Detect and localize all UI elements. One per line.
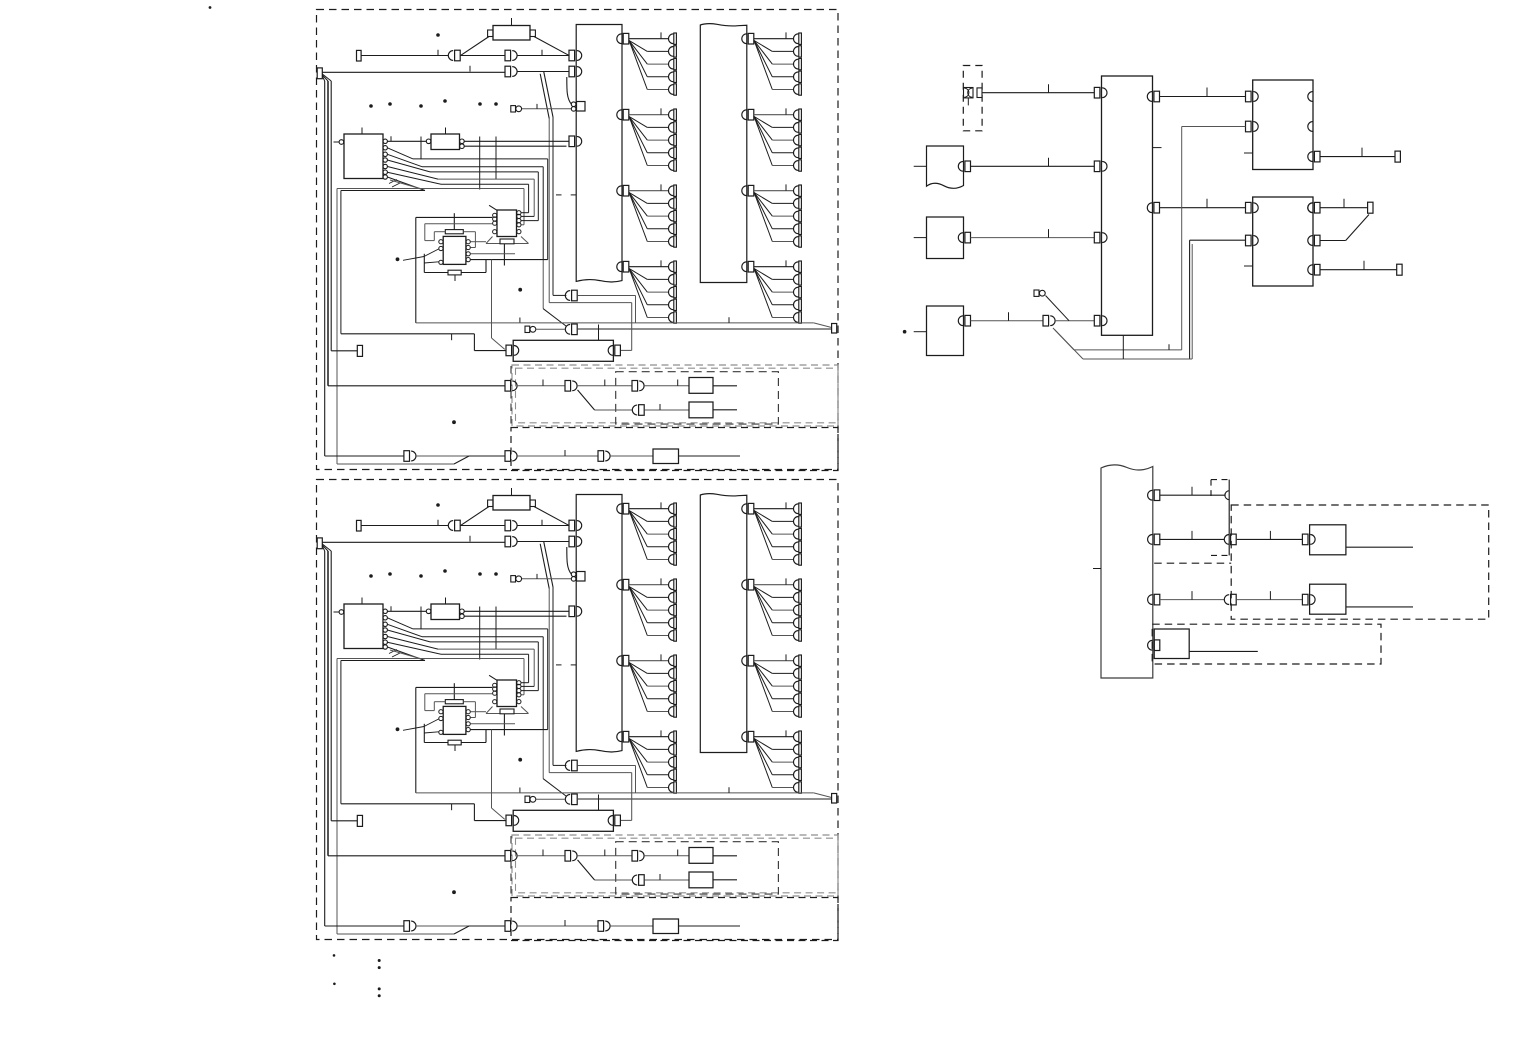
- wire RB1 out: [1320, 148, 1395, 157]
- stub on K1 right: [1153, 147, 1162, 149]
- connector pair C30: [1224, 535, 1229, 545]
- wire K2 row3: [1160, 591, 1224, 600]
- relay RB1: [1244, 80, 1313, 170]
- wire F2 out: [1346, 606, 1413, 608]
- wire M3 to pair: [971, 312, 1044, 321]
- wire RB2 out2 diag: [1320, 215, 1369, 241]
- pin RB1 out: [1308, 152, 1313, 162]
- connector pair C20: [1043, 315, 1049, 326]
- load F3: [1154, 629, 1189, 659]
- wire M1 stub: [914, 165, 927, 167]
- pin K1 right row2: [1147, 203, 1152, 213]
- pin on M3: [958, 316, 963, 326]
- connector half into dashed box: [1225, 491, 1230, 500]
- page mark: [209, 6, 212, 9]
- wire RB2 lower loop: [1055, 240, 1246, 359]
- wire C30 to F1: [1237, 531, 1303, 540]
- wire K1 bottom stub: [1122, 335, 1124, 359]
- wire C31 to F2: [1237, 591, 1303, 600]
- wire M2 to K1: [971, 229, 1095, 238]
- pin K2 row3: [1148, 595, 1153, 605]
- dashed link: [1154, 562, 1231, 564]
- connector into F2: [1302, 594, 1308, 605]
- wire pair to K1: [1055, 320, 1094, 322]
- wire K2 row1: [1160, 487, 1226, 496]
- terminal T4: [1395, 151, 1400, 162]
- pin K2 row4: [1148, 640, 1153, 650]
- sensor box M3: [927, 306, 964, 356]
- connector into K1 row4: [1094, 315, 1100, 326]
- connector into K1 row2: [1094, 161, 1100, 172]
- wire K1 to RB1: [1160, 88, 1246, 97]
- connector lug L3 with leader: [1034, 290, 1069, 321]
- connector into RB2: [1246, 202, 1252, 213]
- pin K2 row1: [1148, 490, 1153, 500]
- relay box K1: [1102, 76, 1153, 335]
- dashed box DB1: [1231, 505, 1489, 619]
- connector into K1 row1: [1094, 87, 1100, 98]
- pin on M1: [958, 161, 963, 171]
- battery dashed box: [963, 66, 982, 131]
- connector into RB1: [1246, 91, 1252, 102]
- connector into K1 row3: [1094, 232, 1100, 243]
- wire F1 out: [1346, 546, 1413, 548]
- terminal T5: [1368, 202, 1373, 213]
- wire K1 to RB2: [1160, 199, 1246, 208]
- connector into F1: [1302, 534, 1308, 545]
- small dashed box SDB2: [1211, 480, 1229, 556]
- wire RB1 lower grey loop: [1053, 127, 1246, 350]
- wire M1 to K1: [971, 158, 1095, 167]
- connector into RB1 lower: [1246, 121, 1252, 132]
- terminal T6: [1397, 264, 1402, 275]
- legend marks: [333, 954, 381, 997]
- wire battery to relay box K1: [982, 84, 1094, 93]
- document component M1: [927, 146, 964, 188]
- pin on M2: [958, 233, 963, 243]
- wire F3 out: [1189, 650, 1258, 652]
- relay RB2: [1244, 197, 1313, 286]
- harness block upper: [317, 10, 839, 471]
- dashed box DB2: [1152, 624, 1381, 664]
- wire K2 row2: [1160, 531, 1224, 540]
- pin RB2 out2: [1308, 236, 1313, 246]
- pin RB2 out1: [1308, 203, 1313, 213]
- wire RB2 out3: [1320, 261, 1397, 270]
- wire M2 stub: [914, 237, 927, 239]
- load F2: [1310, 584, 1346, 614]
- connector into RB2 lower: [1246, 235, 1252, 246]
- pin K2 row2: [1148, 535, 1153, 545]
- load F1: [1310, 525, 1346, 555]
- sensor box M2: [927, 217, 964, 259]
- splice dot M3: [903, 330, 907, 334]
- pin RB2 out3: [1308, 265, 1313, 275]
- harness block lower: [317, 480, 839, 941]
- wire M3 stub: [914, 331, 927, 333]
- connector pair C31: [1224, 595, 1229, 605]
- junction block K2: [1101, 465, 1153, 678]
- stub K2 left: [1093, 568, 1101, 570]
- pin K1 right row1: [1147, 92, 1152, 102]
- battery symbol: [964, 88, 983, 106]
- wire RB2 out1: [1320, 199, 1368, 208]
